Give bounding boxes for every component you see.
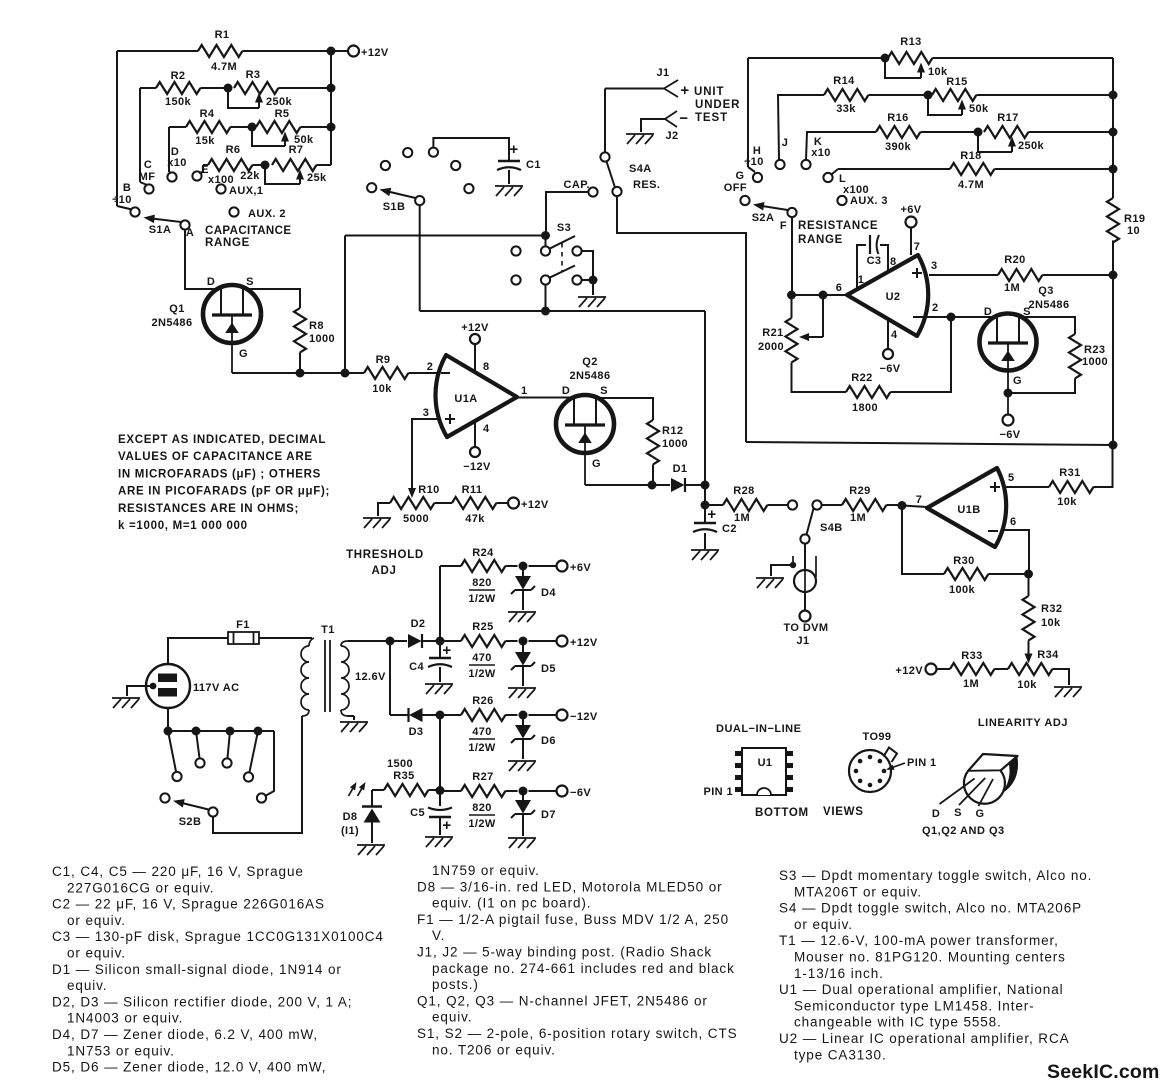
package TO-92 Q1Q2Q3 xyxy=(968,754,1018,771)
svg-text:x10: x10 xyxy=(811,147,831,159)
svg-text:7: 7 xyxy=(914,241,921,253)
ground xyxy=(363,518,391,528)
svg-text:D1: D1 xyxy=(673,463,688,475)
svg-text:+: + xyxy=(509,141,518,158)
svg-text:D: D xyxy=(562,385,570,397)
svg-text:÷10: ÷10 xyxy=(744,156,763,168)
svg-text:25k: 25k xyxy=(307,172,327,184)
svg-text:R8: R8 xyxy=(309,320,324,332)
wire main bus xyxy=(420,310,705,312)
svg-text:−: − xyxy=(679,110,688,127)
svg-text:RANGE: RANGE xyxy=(205,237,250,249)
wire tap4 xyxy=(250,731,259,772)
svg-text:C5: C5 xyxy=(410,807,425,819)
resistor R20 xyxy=(998,269,1042,281)
wire xyxy=(202,165,204,172)
switch S3 link dashed xyxy=(561,243,563,271)
svg-text:R11: R11 xyxy=(462,484,483,496)
svg-text:+6V: +6V xyxy=(570,562,591,574)
svg-text:UNIT: UNIT xyxy=(694,86,724,98)
wire plug bottom xyxy=(167,708,169,731)
zener D7 xyxy=(522,791,524,800)
svg-text:1M: 1M xyxy=(963,678,979,690)
svg-text:−6V: −6V xyxy=(570,787,591,799)
node R25 right xyxy=(519,637,528,646)
node bus R18 xyxy=(1109,165,1118,174)
terminal -6V Q3 xyxy=(1003,415,1014,426)
svg-text:+12V: +12V xyxy=(461,322,489,334)
svg-text:2: 2 xyxy=(427,361,434,373)
svg-text:U1A: U1A xyxy=(454,393,477,405)
svg-text:+: + xyxy=(442,817,451,834)
svg-text:G: G xyxy=(976,808,985,820)
svg-text:RESISTANCE: RESISTANCE xyxy=(798,220,878,232)
svg-text:R2: R2 xyxy=(171,70,186,82)
resistor R33 xyxy=(937,668,951,670)
svg-text:−6V: −6V xyxy=(879,363,900,375)
wire primary to S2B xyxy=(213,716,302,833)
svg-text:1M: 1M xyxy=(734,512,750,524)
node gate bus / S3 branch xyxy=(341,369,350,378)
switch S1B contacts xyxy=(367,183,376,192)
resistor R19 xyxy=(1107,198,1119,242)
svg-text:J1, J2 — 5-way binding post. (: J1, J2 — 5-way binding post. (Radio Shac… xyxy=(417,945,712,960)
svg-text:U1B: U1B xyxy=(957,504,980,516)
switch S4B xyxy=(788,500,797,509)
svg-text:D1 — Silicon small-signal diod: D1 — Silicon small-signal diode, 1N914 o… xyxy=(52,962,342,977)
svg-text:TEST: TEST xyxy=(695,112,728,124)
wire CAP node to S3 xyxy=(545,236,547,247)
switch S2A wiper F xyxy=(787,208,796,217)
potentiometer R10 xyxy=(390,497,434,509)
node pin2 junction xyxy=(947,313,956,322)
fuse F1 xyxy=(228,632,259,644)
svg-text:S: S xyxy=(954,807,962,819)
switch S1A contact C xyxy=(144,184,153,193)
resistor R13 lead xyxy=(748,57,888,59)
wire gate bus xyxy=(232,372,362,374)
wire right bus upper xyxy=(1112,58,1114,198)
diode D3 xyxy=(390,714,408,716)
transformer T1 core xyxy=(324,640,326,712)
svg-text:CAP.: CAP. xyxy=(564,179,590,191)
svg-text:4.7M: 4.7M xyxy=(958,179,984,191)
node D2 anode xyxy=(386,637,395,646)
transformer T1 primary xyxy=(309,638,314,646)
svg-text:47k: 47k xyxy=(465,513,485,525)
wire S1B to main bus xyxy=(419,205,421,311)
resistor R23 xyxy=(1069,334,1081,378)
svg-text:1500: 1500 xyxy=(387,758,413,770)
svg-text:R28: R28 xyxy=(733,485,754,497)
svg-text:4: 4 xyxy=(483,423,490,435)
svg-text:S4 — Dpdt toggle switch, Alco: S4 — Dpdt toggle switch, Alco no. MTA206… xyxy=(779,901,1082,916)
wire U2 pin7 xyxy=(910,228,912,256)
binding post J2 xyxy=(665,111,677,127)
svg-text:470: 470 xyxy=(472,726,492,738)
wire tap3 xyxy=(228,731,231,758)
node R24 right xyxy=(519,562,528,571)
svg-text:22k: 22k xyxy=(240,170,260,182)
wire S3 pole2 to main bus xyxy=(545,285,547,311)
svg-text:DUAL−IN−LINE: DUAL−IN−LINE xyxy=(716,723,801,735)
node R35 right xyxy=(436,786,445,795)
svg-text:Mouser no. 81PG120. Mounting c: Mouser no. 81PG120. Mounting centers xyxy=(794,950,1066,965)
svg-text:S1B: S1B xyxy=(383,201,406,213)
svg-text:k =1000, M=1 000 000: k =1000, M=1 000 000 xyxy=(118,520,248,532)
switch S1A contact B xyxy=(130,207,139,216)
svg-text:F1: F1 xyxy=(236,619,250,631)
svg-text:1: 1 xyxy=(521,385,528,397)
switch S2A contact G xyxy=(740,196,749,205)
wire S1A to Q1 drain xyxy=(185,230,222,289)
svg-text:+12V: +12V xyxy=(521,499,549,511)
svg-text:1M: 1M xyxy=(1004,282,1020,294)
svg-text:−6V: −6V xyxy=(999,429,1020,441)
svg-text:G: G xyxy=(239,348,248,360)
svg-text:posts.): posts.) xyxy=(432,977,479,992)
wire tap1 xyxy=(168,731,176,772)
resistor R2 xyxy=(156,82,200,94)
potentiometer R3 xyxy=(234,82,278,94)
svg-text:3: 3 xyxy=(423,407,430,419)
svg-text:Q1,Q2 AND Q3: Q1,Q2 AND Q3 xyxy=(922,825,1005,837)
wire pin7 xyxy=(902,506,927,508)
ground xyxy=(340,722,368,732)
svg-text:R12: R12 xyxy=(662,425,683,437)
node R4-R5 xyxy=(248,123,257,132)
ground xyxy=(425,684,453,694)
svg-text:1/2W: 1/2W xyxy=(468,593,495,605)
svg-text:S: S xyxy=(246,276,254,288)
svg-text:G: G xyxy=(736,170,745,182)
switch S1A wiper A xyxy=(180,220,189,229)
svg-text:MTA206T or equiv.: MTA206T or equiv. xyxy=(794,884,922,899)
resistor R26 xyxy=(440,714,461,716)
svg-text:R16: R16 xyxy=(887,112,908,124)
terminal +12V R33 xyxy=(926,664,937,675)
svg-text:C2: C2 xyxy=(722,523,737,535)
wire R30 left xyxy=(902,506,944,575)
svg-text:5: 5 xyxy=(1008,472,1015,484)
wire xyxy=(168,127,170,172)
wire J1 to S4A xyxy=(604,89,606,153)
svg-text:10k: 10k xyxy=(1041,617,1061,629)
switch S3 pole2 xyxy=(511,275,520,284)
svg-text:4: 4 xyxy=(891,329,898,341)
wire pin3 to R10 wiper xyxy=(412,419,437,489)
zener D4 xyxy=(522,566,524,576)
svg-text:10: 10 xyxy=(1127,225,1140,237)
wire minus rail vert xyxy=(439,715,441,791)
svg-text:+: + xyxy=(442,642,451,659)
svg-text:S1, S2 — 2-pole, 6-position ro: S1, S2 — 2-pole, 6-position rotary switc… xyxy=(417,1026,738,1041)
svg-text:2: 2 xyxy=(932,302,939,314)
wire S1B contact to C1 xyxy=(433,138,509,160)
svg-text:4.7M: 4.7M xyxy=(211,61,237,73)
node raw minus xyxy=(436,711,445,720)
wire tap5 elbow xyxy=(266,731,274,796)
svg-text:33k: 33k xyxy=(836,103,856,115)
svg-text:Q2: Q2 xyxy=(582,356,597,368)
wire pin2 to Q3 drain xyxy=(951,316,998,318)
svg-text:R30: R30 xyxy=(953,555,974,567)
svg-text:6: 6 xyxy=(1010,516,1017,528)
svg-text:RANGE: RANGE xyxy=(798,234,843,246)
svg-text:D2: D2 xyxy=(411,618,426,630)
switch S1A contact AUX.1 xyxy=(216,184,225,193)
resistor R14 xyxy=(778,95,824,160)
svg-text:x10: x10 xyxy=(167,157,187,169)
svg-text:UNDER: UNDER xyxy=(695,99,740,111)
wire Q1 source to R8 xyxy=(243,289,301,308)
wire pin1 to Q2 xyxy=(517,397,575,399)
svg-text:C2 — 22 μF, 16 V, Sprague 226G: C2 — 22 μF, 16 V, Sprague 226G016AS xyxy=(52,897,325,912)
svg-text:+12V: +12V xyxy=(361,47,389,59)
svg-text:S4B: S4B xyxy=(820,522,843,534)
svg-text:OFF: OFF xyxy=(724,182,747,194)
svg-text:R14: R14 xyxy=(833,75,855,87)
binding post J1 xyxy=(664,80,678,97)
diode D2 xyxy=(390,640,407,642)
wire S3 right contacts xyxy=(582,251,593,280)
resistor R18 xyxy=(832,169,838,174)
svg-text:F1 — 1/2-A pigtail fuse, Buss: F1 — 1/2-A pigtail fuse, Buss MDV 1/2 A,… xyxy=(417,912,729,927)
node tap2 xyxy=(192,727,201,736)
node R5 right xyxy=(327,123,336,132)
wire U2 pin4 xyxy=(887,319,889,349)
node bus R17 xyxy=(1109,128,1118,137)
terminal -6V U2 pin4 xyxy=(883,349,893,359)
svg-text:C1, C4, C5 — 220 μF, 16 V, Spr: C1, C4, C5 — 220 μF, 16 V, Sprague xyxy=(52,864,304,879)
node bus R15 xyxy=(1109,91,1118,100)
svg-text:ARE IN PICOFARADS (pF OR μμF);: ARE IN PICOFARADS (pF OR μμF); xyxy=(118,486,330,498)
svg-text:1: 1 xyxy=(858,274,865,286)
switch S2A contact H xyxy=(753,173,762,182)
wire plug ground xyxy=(127,686,153,696)
svg-text:V.: V. xyxy=(432,928,445,943)
svg-text:R4: R4 xyxy=(200,108,215,120)
svg-text:D4, D7 — Zener diode, 6.2 V, 4: D4, D7 — Zener diode, 6.2 V, 400 mW, xyxy=(52,1027,318,1042)
ground xyxy=(357,845,385,855)
potentiometer R7 xyxy=(272,159,316,171)
svg-text:Q3: Q3 xyxy=(1038,285,1053,297)
svg-text:820: 820 xyxy=(472,577,492,589)
svg-text:10k: 10k xyxy=(372,383,392,395)
ground xyxy=(508,612,536,622)
wire pin5 to R31 xyxy=(1003,486,1049,488)
svg-text:R6: R6 xyxy=(226,144,241,156)
led D8 xyxy=(372,789,384,791)
terminal +6V U2 xyxy=(906,217,917,228)
svg-text:1N4003 or equiv.: 1N4003 or equiv. xyxy=(67,1011,183,1026)
resistor R8 xyxy=(294,308,306,352)
svg-text:D5, D6 — Zener diode, 12.0 V,: D5, D6 — Zener diode, 12.0 V, 400 mW, xyxy=(52,1060,326,1075)
svg-text:10k: 10k xyxy=(1057,496,1077,508)
svg-text:R1: R1 xyxy=(215,29,230,41)
node R28 tap xyxy=(701,501,710,510)
capacitor C5 xyxy=(428,808,452,811)
zener D6 xyxy=(522,715,524,725)
svg-text:1N753 or equiv.: 1N753 or equiv. xyxy=(67,1043,175,1058)
ground xyxy=(508,688,536,698)
svg-text:+: + xyxy=(707,506,716,523)
svg-text:R34: R34 xyxy=(1037,649,1059,661)
svg-text:R19: R19 xyxy=(1124,213,1145,225)
transistor Q1 xyxy=(203,285,261,343)
switch S2B contact 5 xyxy=(244,772,253,781)
wire long bottom xyxy=(746,442,1113,445)
potentiometer R34 xyxy=(1008,663,1052,675)
terminal -12V U1A pin4 xyxy=(470,447,480,457)
transformer T1 secondary xyxy=(341,641,348,646)
resistor R25 xyxy=(440,640,461,642)
svg-text:D5: D5 xyxy=(541,663,556,675)
jack TO DVM xyxy=(794,570,816,592)
node R21 wiper junction xyxy=(819,291,828,300)
svg-text:R20: R20 xyxy=(1004,254,1025,266)
resistor R28 xyxy=(705,504,723,506)
wire F to U2 pin6 xyxy=(791,217,793,295)
wire S2B bus xyxy=(168,730,274,732)
wire right bus lower xyxy=(1112,240,1114,445)
wire main bus drop xyxy=(704,311,706,523)
node long wire / bus xyxy=(1109,441,1118,450)
svg-text:R13: R13 xyxy=(900,36,921,48)
svg-text:8: 8 xyxy=(890,256,897,268)
capacitor C3 xyxy=(857,245,866,289)
switch S2A contact J xyxy=(775,160,784,169)
svg-text:J: J xyxy=(782,137,789,149)
svg-text:J2: J2 xyxy=(665,130,678,142)
ground xyxy=(626,134,654,144)
switch S2B wiper xyxy=(208,807,217,816)
wire RES to right bus xyxy=(617,196,746,442)
wire xyxy=(592,280,594,295)
svg-text:C3: C3 xyxy=(867,255,882,267)
svg-text:equiv. (I1 on pc board).: equiv. (I1 on pc board). xyxy=(432,896,591,911)
svg-text:ADJ: ADJ xyxy=(371,565,396,577)
ground xyxy=(508,761,536,771)
svg-text:R9: R9 xyxy=(376,354,391,366)
svg-text:227G016CG or equiv.: 227G016CG or equiv. xyxy=(67,880,214,895)
svg-text:1000: 1000 xyxy=(1082,356,1108,368)
ground xyxy=(756,578,784,588)
potentiometer R17 xyxy=(984,126,1028,138)
ground xyxy=(425,837,453,847)
wire tap2 xyxy=(196,731,200,758)
wire U2 pin2 out xyxy=(926,316,951,318)
svg-text:C3 — 130-pF disk, Sprague 1CC0: C3 — 130-pF disk, Sprague 1CC0G131X0100C… xyxy=(52,929,384,944)
svg-text:(I1): (I1) xyxy=(341,825,359,837)
resistor R12 xyxy=(647,420,659,464)
switch S2B contact 4 xyxy=(222,758,231,767)
wire pin6 xyxy=(1002,530,1029,574)
svg-text:PIN 1: PIN 1 xyxy=(907,757,937,769)
wire R13 to H xyxy=(747,58,749,167)
svg-text:15k: 15k xyxy=(195,135,215,147)
wire U2 pin6 xyxy=(791,294,847,296)
svg-text:820: 820 xyxy=(472,802,492,814)
svg-text:D8 — 3/16-in. red LED, Motorol: D8 — 3/16-in. red LED, Motorola MLED50 o… xyxy=(417,879,723,894)
svg-text:VIEWS: VIEWS xyxy=(823,806,864,818)
switch S4A xyxy=(600,152,609,161)
terminal jack out xyxy=(800,611,811,622)
wire pin8 xyxy=(474,344,476,372)
node raw plus xyxy=(436,637,445,646)
terminal +12V U1A pin8 xyxy=(470,334,480,344)
capacitor C1 xyxy=(498,160,520,163)
svg-text:100k: 100k xyxy=(949,584,976,596)
svg-text:+6V: +6V xyxy=(900,204,921,216)
wire Q2 gate to D1 xyxy=(585,484,670,486)
svg-text:T1: T1 xyxy=(321,624,335,636)
ground xyxy=(112,698,140,708)
switch S1A contact AUX.2 xyxy=(229,207,238,216)
svg-text:R18: R18 xyxy=(960,150,981,162)
ground xyxy=(495,186,523,196)
svg-text:or equiv.: or equiv. xyxy=(794,917,853,932)
switch S1A contact E xyxy=(192,171,201,180)
svg-text:R15: R15 xyxy=(946,76,967,88)
potentiometer R13 xyxy=(888,52,932,64)
svg-text:R27: R27 xyxy=(472,771,493,783)
wire xyxy=(139,88,141,182)
svg-text:R29: R29 xyxy=(849,485,870,497)
svg-text:R33: R33 xyxy=(961,650,982,662)
svg-text:R32: R32 xyxy=(1041,603,1062,615)
svg-text:J1: J1 xyxy=(656,67,669,79)
svg-text:7: 7 xyxy=(916,494,923,506)
svg-text:RES.: RES. xyxy=(633,179,660,191)
terminal +6V xyxy=(529,565,557,567)
switch S2B contact 6 xyxy=(257,793,266,802)
node tap4 xyxy=(254,727,263,736)
svg-text:1N759 or equiv.: 1N759 or equiv. xyxy=(432,863,540,878)
package U1 DIP xyxy=(742,748,786,795)
svg-text:S3 — Dpdt momentary toggle swi: S3 — Dpdt momentary toggle switch, Alco … xyxy=(779,868,1092,883)
svg-text:EXCEPT AS INDICATED, DECIMAL: EXCEPT AS INDICATED, DECIMAL xyxy=(118,434,326,446)
svg-text:390k: 390k xyxy=(885,141,912,153)
node R2-R3 xyxy=(224,84,233,93)
svg-text:2N5486: 2N5486 xyxy=(1029,299,1070,311)
ground xyxy=(1054,687,1082,697)
svg-text:10k: 10k xyxy=(928,66,948,78)
svg-text:R21: R21 xyxy=(762,327,783,339)
svg-text:1/2W: 1/2W xyxy=(468,668,495,680)
svg-text:2000: 2000 xyxy=(758,341,784,353)
resistor R11 xyxy=(452,497,496,509)
svg-text:R5: R5 xyxy=(275,108,290,120)
svg-text:−12V: −12V xyxy=(570,711,598,723)
switch S3 pole1 xyxy=(511,246,520,255)
svg-text:D2, D3 — Silicon rectifier dio: D2, D3 — Silicon rectifier diode, 200 V,… xyxy=(52,994,352,1009)
transistor Q2 xyxy=(556,395,614,453)
svg-text:BOTTOM: BOTTOM xyxy=(755,807,809,819)
svg-text:D: D xyxy=(932,808,940,820)
svg-text:G: G xyxy=(1013,375,1022,387)
terminal CAP xyxy=(588,187,597,196)
wire xyxy=(116,51,118,206)
wire F1 to T1 xyxy=(259,637,312,639)
potentiometer R15 xyxy=(932,89,976,101)
wire CAP node horizontal xyxy=(345,235,545,237)
svg-text:150k: 150k xyxy=(165,96,192,108)
node tap1 xyxy=(164,727,173,736)
node R3 right xyxy=(327,84,336,93)
svg-text:1800: 1800 xyxy=(852,402,878,414)
wire R24 left vert xyxy=(439,566,441,658)
